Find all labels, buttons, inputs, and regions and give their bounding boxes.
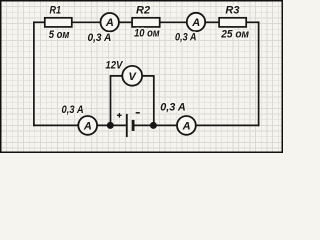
svg-text:A: A: [182, 120, 191, 132]
svg-text:A: A: [191, 17, 200, 29]
battery B1: [127, 114, 133, 137]
wire: ammeter A4 to bottom-right corner: [196, 124, 259, 126]
node B (junction dot right): [150, 122, 157, 129]
svg-text:0,3 A: 0,3 A: [62, 104, 84, 116]
resistor R3: [219, 18, 246, 27]
voltmeter V: [122, 66, 142, 86]
wire: bottom-left horizontal to ammeter A3: [34, 124, 78, 126]
wire: voltmeter to node B: [143, 76, 154, 126]
svg-text:R1: R1: [50, 5, 62, 17]
wire: right vertical: [258, 22, 260, 125]
ammeter A3 (bottom left): [78, 116, 97, 135]
battery short plate (-): [132, 120, 135, 131]
wire: left vertical: [33, 22, 35, 125]
wire: A3 to node A: [97, 124, 126, 126]
wire: battery to node B: [134, 124, 177, 126]
wire: top-left segment to R1: [34, 21, 45, 23]
ammeter A1: [101, 13, 119, 31]
battery - sign: [136, 112, 140, 114]
svg-text:0,3 A: 0,3 A: [175, 32, 197, 44]
wire: R1 to ammeter A1: [72, 21, 101, 23]
svg-text:5 ом: 5 ом: [49, 29, 70, 41]
battery + sign: [117, 113, 122, 118]
wire: R2 to ammeter A2: [160, 21, 187, 23]
svg-text:12V: 12V: [105, 59, 123, 71]
svg-text:A: A: [83, 120, 92, 132]
svg-text:25 ом: 25 ом: [220, 29, 249, 41]
svg-text:0,3 A: 0,3 A: [160, 102, 186, 114]
svg-text:10 ом: 10 ом: [134, 28, 160, 40]
svg-text:R3: R3: [225, 5, 239, 17]
ammeter A4 (bottom right): [177, 116, 196, 135]
svg-text:0,3 A: 0,3 A: [88, 32, 112, 44]
wire: R3 to top-right corner: [246, 21, 258, 23]
wire: A2 to R3: [205, 21, 219, 23]
ammeter A2: [187, 13, 205, 31]
wire: A1 to R2: [119, 21, 132, 23]
resistor R1: [45, 18, 72, 27]
svg-text:A: A: [105, 17, 114, 29]
node A (junction dot left): [107, 122, 114, 129]
wire: node A up to voltmeter branch: [111, 76, 123, 126]
resistor R2: [132, 18, 160, 27]
battery long plate (+): [126, 114, 128, 137]
svg-text:R2: R2: [136, 5, 150, 17]
